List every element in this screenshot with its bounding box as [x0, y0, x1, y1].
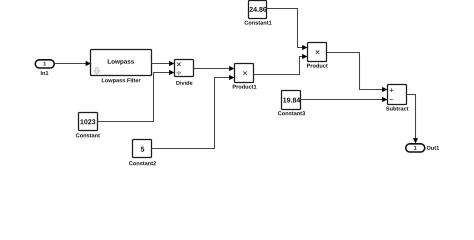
constant Constant value 1023: [76, 113, 100, 138]
wire Product1 to Product bottom input: [254, 54, 308, 75]
icon gray down-arrow badge: [94, 68, 100, 75]
block Product1: [233, 64, 257, 89]
block Divide: [175, 60, 194, 85]
constant Constant2 value 5: [129, 140, 156, 166]
wire Subtract to Out1: [407, 95, 419, 144]
wire Constant to Divide divide input: [98, 70, 175, 122]
inport In1: [35, 60, 54, 75]
wire In1 to Lowpass: [55, 61, 92, 66]
constant Constant3 value 19.84: [278, 91, 305, 116]
wire Constant3 to Subtract minus input: [301, 97, 388, 102]
wire Divide to Product1 top input: [194, 66, 235, 71]
block Product: [307, 43, 328, 68]
block Lowpass Filter: [91, 50, 152, 84]
wire Lowpass to Divide times input: [152, 61, 175, 66]
wire Constant1 to Product top input: [267, 9, 308, 51]
wire Product to Subtract plus input: [327, 53, 388, 93]
wire Constant2 to Product1 bottom input: [152, 75, 235, 149]
constant Constant1 value 24.86: [245, 1, 272, 25]
block Subtract: [386, 85, 408, 111]
outport Out1: [406, 144, 439, 152]
